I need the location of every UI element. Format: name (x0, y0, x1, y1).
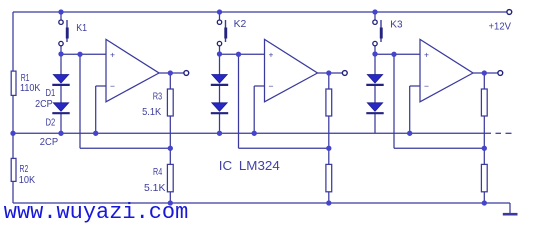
svg-text:K2: K2 (234, 18, 247, 30)
svg-text:−: − (110, 81, 115, 91)
svg-text:www.wuyazi.com: www.wuyazi.com (4, 200, 189, 225)
svg-text:D1: D1 (46, 87, 56, 99)
svg-text:D2: D2 (46, 116, 56, 128)
svg-text:10K: 10K (19, 174, 35, 186)
svg-text:2CP: 2CP (40, 136, 58, 148)
svg-text:5.1K: 5.1K (142, 106, 161, 118)
svg-text:+: + (269, 49, 274, 59)
svg-text:R2: R2 (20, 163, 29, 175)
svg-text:+12V: +12V (489, 20, 512, 32)
svg-text:R4: R4 (153, 166, 162, 178)
svg-text:−: − (269, 81, 274, 91)
svg-text:+: + (424, 49, 429, 59)
svg-text:110K: 110K (20, 82, 40, 94)
svg-text:R3: R3 (153, 91, 163, 103)
svg-text:K3: K3 (390, 19, 402, 31)
svg-text:+: + (110, 49, 115, 59)
svg-text:5.1K: 5.1K (144, 182, 165, 194)
svg-text:−: − (424, 81, 429, 91)
svg-text:IC LM324: IC LM324 (219, 159, 280, 173)
svg-text:K1: K1 (76, 22, 87, 34)
svg-text:2CP: 2CP (35, 98, 53, 110)
